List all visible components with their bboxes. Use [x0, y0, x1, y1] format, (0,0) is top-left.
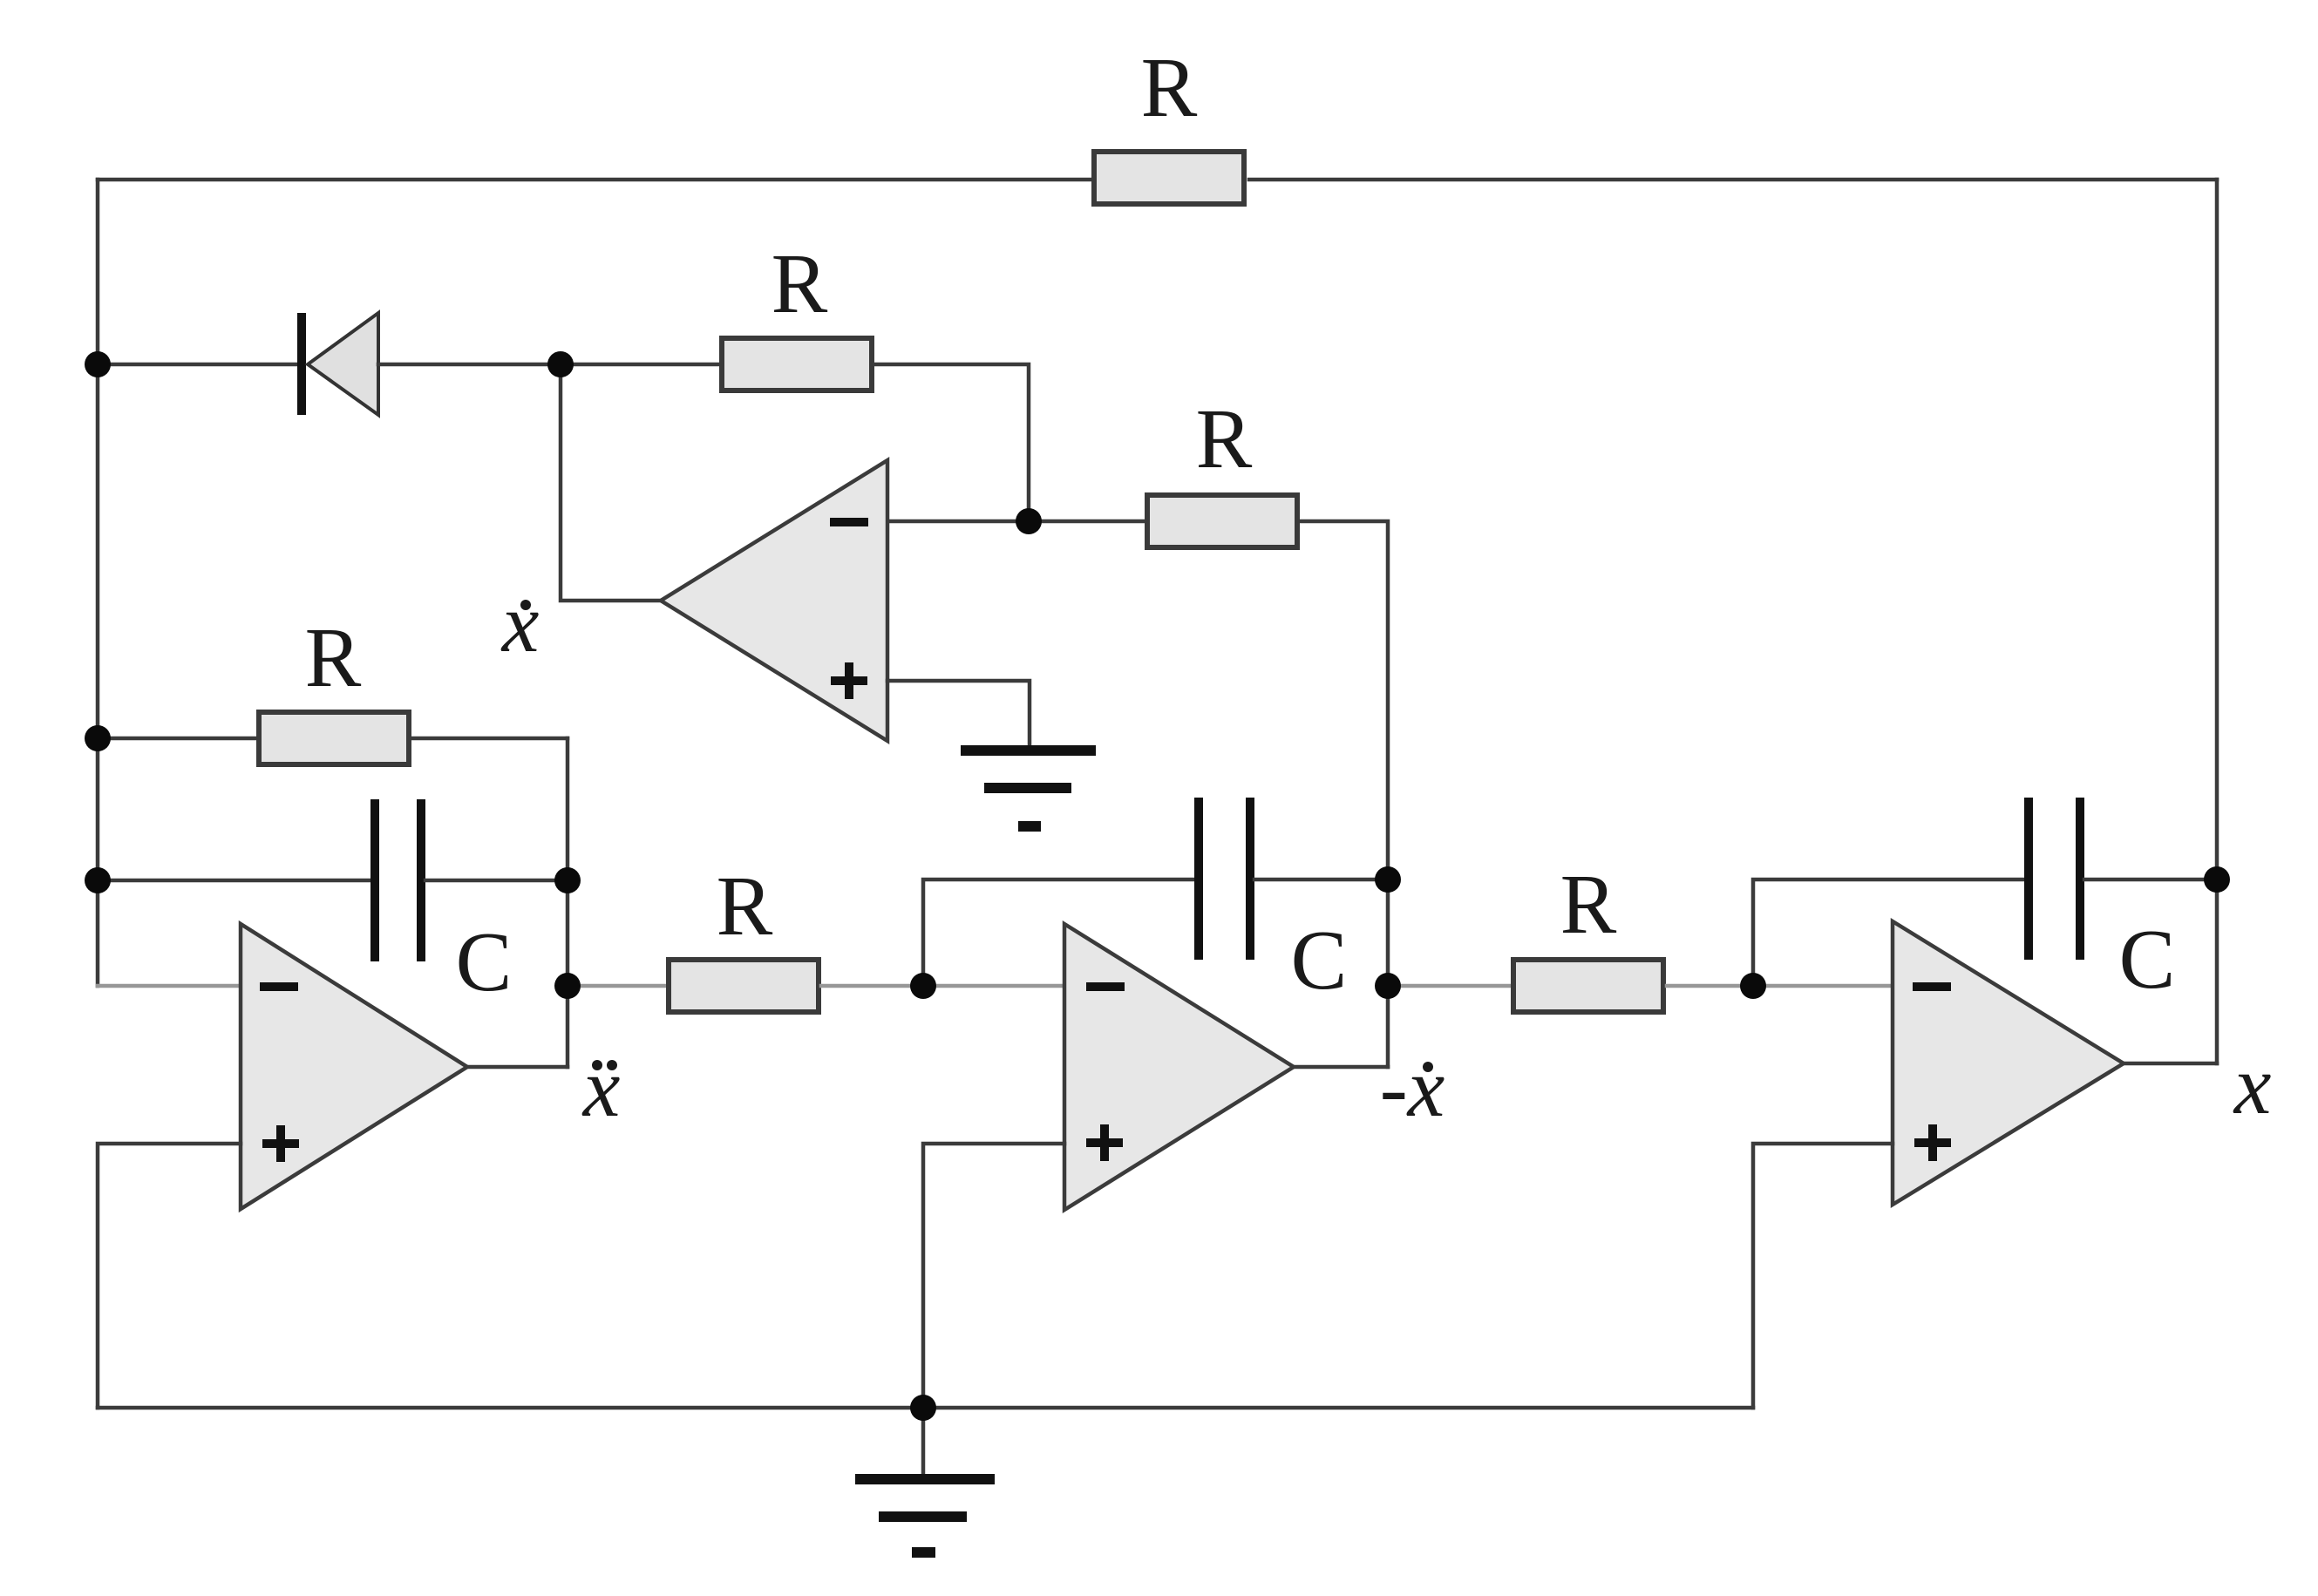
wire A4 plus input — [1753, 1144, 1893, 1408]
node C3 right junction — [2204, 866, 2230, 893]
wire A3 plus input — [923, 1144, 1064, 1408]
op-amp A3 — [1064, 924, 1294, 1210]
svg-text:x: x — [581, 1041, 621, 1134]
op-amp A2 plus sign — [262, 1125, 299, 1162]
op-amp A4 plus sign — [1914, 1124, 1951, 1161]
node label x-dot — [500, 576, 540, 669]
wire top rail left — [98, 178, 1092, 182]
node C1 right junction — [554, 867, 581, 893]
wire C2 row right — [1254, 878, 1388, 882]
wire gray xddot to R — [568, 984, 664, 988]
ground G2 bar3 — [912, 1547, 935, 1558]
wire A2 minus input gray — [98, 984, 241, 988]
ground G2 stem — [921, 1408, 926, 1477]
ground G1 bar3 — [1018, 821, 1041, 832]
capacitor C3 right plate — [2076, 798, 2084, 960]
wire gray minus-xdot to R — [1388, 984, 1510, 988]
wire C2 feedback left — [923, 879, 1194, 986]
capacitor C1 right plate — [417, 799, 425, 961]
wire bottom rail — [98, 1406, 1753, 1410]
wire U1 plus input — [887, 681, 1030, 747]
wire C3 row right — [2084, 878, 2217, 882]
wire C1 row right — [425, 879, 568, 883]
node A3 minus junction — [910, 973, 936, 999]
diode D1 cathode bar — [297, 313, 306, 415]
svg-text:R: R — [1141, 41, 1198, 134]
wire A2 output — [467, 1065, 568, 1070]
wire minus row to R — [1029, 520, 1144, 524]
svg-text:R: R — [717, 859, 773, 953]
node diode left junction — [85, 351, 111, 377]
wire gray R to A4 minus — [1667, 984, 1893, 988]
op-amp A3 plus sign — [1086, 1124, 1123, 1161]
wire diode row left — [98, 363, 302, 367]
op-amp U1 minus sign — [830, 518, 868, 526]
op-amp A4 — [1893, 921, 2124, 1205]
node U1 minus junction — [1016, 508, 1042, 534]
svg-text:x: x — [500, 576, 540, 669]
ground G1 bar2 — [984, 783, 1071, 793]
node label minus-x-dot — [1380, 1041, 1445, 1134]
wire left vertical — [96, 180, 100, 986]
node C1 left junction — [85, 867, 111, 893]
op-amp A4 minus sign — [1913, 982, 1951, 991]
op-amp U1 plus sign — [831, 662, 867, 699]
wire gray R to A3 minus — [821, 984, 1064, 988]
wire row2 right — [875, 364, 1029, 521]
svg-text:C: C — [456, 915, 513, 1009]
wire diode row right — [378, 363, 561, 367]
node A4 minus junction — [1740, 973, 1766, 999]
svg-text:R: R — [305, 611, 362, 704]
wire A3 output — [1294, 1065, 1388, 1070]
resistor R row4a — [669, 960, 819, 1012]
capacitor C2 left plate — [1194, 798, 1203, 960]
wire row3 right — [412, 737, 568, 741]
svg-text:R: R — [1196, 392, 1253, 486]
wire R row2b to feedback vertical — [1301, 521, 1388, 1067]
svg-text:-x: -x — [1380, 1041, 1445, 1134]
wire row3 left — [98, 737, 255, 741]
node C2 right junction — [1375, 866, 1401, 893]
diode D1 — [308, 313, 378, 415]
node label x-ddot — [581, 1041, 621, 1134]
svg-text:R: R — [1560, 858, 1617, 951]
resistor R row3 — [259, 712, 409, 764]
ground G2 bar1 — [855, 1474, 995, 1484]
wire top rail right — [1249, 178, 2217, 182]
resistor R row2 — [722, 338, 872, 391]
wire C3 feedback left — [1753, 879, 2024, 986]
node row3 left junction — [85, 725, 111, 751]
node minus-xdot junction — [1375, 973, 1401, 999]
op-amp A3 minus sign — [1086, 982, 1125, 991]
wire A2 plus input — [98, 1144, 241, 1408]
resistor R row2b — [1147, 495, 1297, 547]
svg-text:x: x — [2233, 1038, 2272, 1131]
wire row2 left — [561, 363, 718, 367]
capacitor C2 right plate — [1246, 798, 1254, 960]
node xddot gray junction — [554, 973, 581, 999]
svg-text:R: R — [772, 237, 828, 330]
ground G2 bar2 — [879, 1511, 967, 1522]
op-amp U1 — [661, 460, 887, 741]
resistor R top — [1094, 152, 1244, 204]
node x-dot junction — [547, 351, 574, 377]
ground G1 bar1 — [961, 745, 1096, 756]
op-amp A2 minus sign — [260, 982, 298, 991]
wire U1 output — [561, 364, 661, 601]
resistor R row4b — [1513, 960, 1663, 1012]
wire C1 row left — [98, 879, 370, 883]
capacitor C1 left plate — [370, 799, 379, 961]
svg-text:C: C — [2119, 913, 2176, 1006]
node bottom rail junction — [910, 1395, 936, 1421]
capacitor C3 left plate — [2024, 798, 2033, 960]
wire op-amp U1 minus input — [887, 520, 1029, 524]
wire xddot vertical — [566, 738, 570, 1067]
wire A4 output — [2124, 1062, 2217, 1066]
op-amp A2 — [241, 924, 467, 1209]
wire right vertical — [2215, 180, 2219, 1063]
svg-text:C: C — [1291, 913, 1348, 1007]
